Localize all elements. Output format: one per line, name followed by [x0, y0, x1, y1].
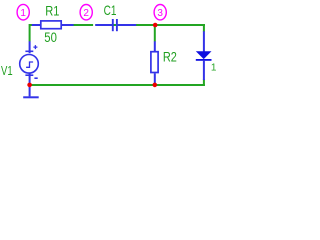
resistor R2 bottom lead [154, 73, 156, 83]
svg-text:1: 1 [211, 63, 217, 74]
source V1 bottom terminal bar [25, 74, 33, 76]
source V1 plus sign [33, 45, 37, 49]
svg-text:C1: C1 [104, 2, 117, 18]
node 3 bubble [154, 5, 166, 20]
node 1 bubble [17, 4, 29, 20]
diode D cathode bar [196, 59, 212, 61]
source V1 top terminal bar [25, 50, 33, 52]
diode D bottom lead [203, 61, 205, 80]
ground bar [23, 96, 39, 98]
node 2 bubble [80, 5, 92, 20]
svg-text:1: 1 [20, 8, 26, 19]
wire bottom horizontal ground net [29, 84, 205, 86]
svg-text:R2: R2 [163, 49, 177, 64]
capacitor C1 plates [112, 19, 114, 31]
wire left vertical from node 1 corner down to V1 [29, 24, 31, 42]
capacitor C1 leads [95, 24, 112, 26]
diode D triangle [196, 51, 212, 59]
source V1 bottom lead [29, 73, 31, 84]
wire top horizontal net 1-2-3 [29, 24, 205, 26]
source V1 step waveform glyph [26, 62, 33, 67]
wire right vertical from top wire corner down to diode [203, 24, 205, 32]
resistor R2 body [151, 52, 158, 73]
svg-text:50: 50 [44, 30, 57, 45]
wire gap before C1 left lead [93, 23, 95, 26]
source V1 circle [20, 55, 39, 74]
wire vertical from node 3 down to R2 [154, 26, 156, 42]
junction dot node 3 top [153, 23, 158, 28]
resistor R1 body [41, 21, 61, 29]
svg-text:3: 3 [157, 8, 163, 19]
svg-text:R1: R1 [45, 3, 59, 18]
source V1 top lead [29, 41, 31, 53]
svg-text:2: 2 [83, 8, 89, 19]
junction dot under R2 [153, 83, 158, 88]
source V1 minus sign [34, 77, 37, 79]
diode D top lead [203, 31, 205, 51]
ground stem [29, 85, 31, 96]
wire right vertical from diode bottom to bottom wire [203, 79, 205, 86]
resistor R1 leads [32, 24, 41, 26]
svg-text:V1: V1 [1, 64, 13, 78]
resistor R2 top lead [154, 41, 156, 51]
junction dot under V1 [27, 83, 32, 88]
